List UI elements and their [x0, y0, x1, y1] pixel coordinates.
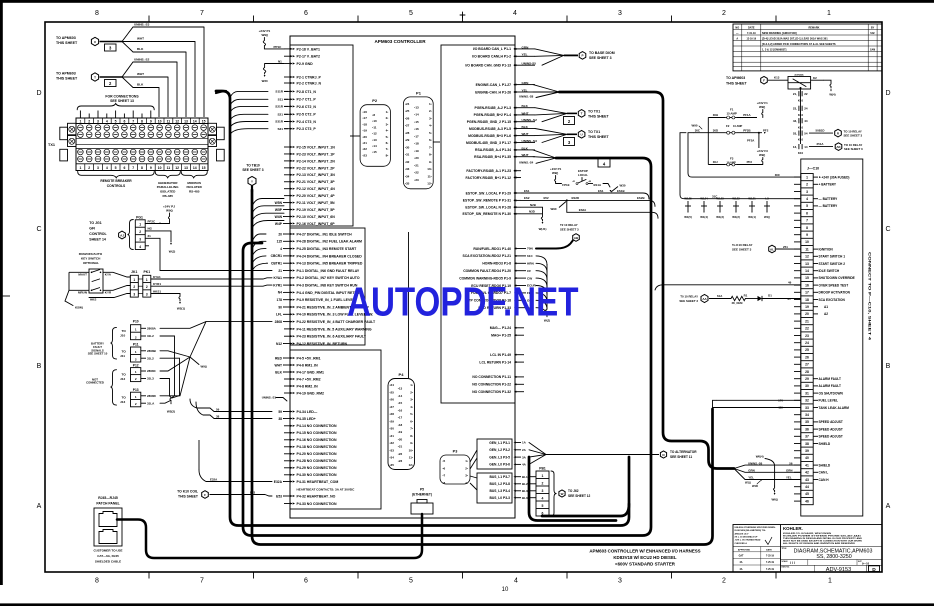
svg-text:18: 18 — [805, 298, 809, 302]
svg-text:KYA: KYA — [105, 272, 112, 276]
svg-text:ESTOP_SW_REMOTE N P1-30: ESTOP_SW_REMOTE N P1-30 — [462, 212, 511, 216]
svg-text:NO CONNECTION P1-11: NO CONNECTION P1-11 — [472, 375, 511, 379]
svg-text:AUX(D)A: AUX(D)A — [794, 74, 804, 77]
svg-text:D1: D1 — [768, 294, 772, 298]
svg-text:3: 3 — [542, 489, 544, 493]
svg-text:To K10 RELAY: To K10 RELAY — [732, 243, 753, 247]
svg-text:W6(): W6() — [771, 498, 777, 502]
svg-text:SHEET 14: SHEET 14 — [89, 238, 106, 242]
svg-text:W: W — [561, 492, 564, 496]
svg-text:P2-13 VOLT_INPUT_3N: P2-13 VOLT_INPUT_3N — [297, 173, 336, 177]
svg-text:SEE SHEET 3: SEE SHEET 3 — [589, 56, 612, 60]
svg-text:RED: RED — [275, 356, 283, 360]
svg-text:PF2B: PF2B — [743, 128, 750, 132]
GEN fan to alternator — [529, 443, 546, 455]
svg-text:P2-22 VOLT_INPUT_2P: P2-22 VOLT_INPUT_2P — [297, 166, 336, 170]
svg-text:W(J): W(J) — [169, 250, 176, 254]
svg-text:PB1: PB1 — [539, 467, 546, 471]
svg-text:9•: 9• — [410, 441, 413, 445]
svg-text:SHIELD: SHIELD — [819, 442, 831, 446]
fan PGEN to TX1 — [535, 108, 567, 114]
svg-text:1: 1 — [806, 175, 808, 179]
P10-P13 crossing wires — [160, 322, 272, 329]
svg-text:1•: 1• — [465, 459, 468, 463]
svg-text:DATE: DATE — [766, 548, 772, 551]
svg-text:C: C — [885, 226, 890, 233]
svg-text:7-25-19: 7-25-19 — [766, 569, 775, 571]
svg-text:K2: K2 — [813, 76, 817, 80]
misc vertical wires — [408, 232, 410, 378]
heavy cable RS485 fan4 — [243, 158, 651, 536]
TB10 branch wires — [252, 199, 284, 207]
svg-text:LFL: LFL — [276, 313, 282, 317]
svg-text:S11R: S11R — [275, 90, 283, 94]
svg-text:4•: 4• — [386, 129, 389, 133]
svg-text:•26: •26 — [405, 116, 410, 120]
svg-text:N1: N1 — [278, 59, 282, 63]
svg-text:ES2D: ES2D — [572, 196, 580, 200]
svg-text:.XXX ± .010 HUMAN READ: .XXX ± .010 HUMAN READ — [735, 539, 761, 542]
svg-text:P4-28 DIGITAL_IN2 FUEL LEAK AL: P4-28 DIGITAL_IN2 FUEL LEAK ALARM — [297, 240, 363, 244]
svg-text:GFI: GFI — [89, 227, 95, 231]
P3 to GEN/BUS links — [470, 450, 477, 462]
svg-text:THIS SHEET: THIS SHEET — [588, 135, 609, 139]
svg-text:9: 9 — [150, 166, 152, 170]
svg-text:ES2: ES2 — [524, 196, 530, 200]
svg-text:APM603 CONTROLLER: APM603 CONTROLLER — [374, 39, 426, 44]
PK1 wires to P4 — [151, 278, 272, 279]
svg-text:LCL IN P1-49: LCL IN P1-49 — [490, 353, 511, 357]
svg-text:ALL RIGHTS OF DESIGN AND INVEN: ALL RIGHTS OF DESIGN AND INVENTION ARE R… — [783, 542, 856, 545]
svg-text:16: 16 — [805, 283, 809, 287]
svg-text:2: 2 — [722, 578, 726, 585]
svg-text:38: 38 — [805, 442, 809, 446]
svg-text:P2-8 CT1_N: P2-8 CT1_N — [297, 90, 317, 94]
svg-text:•17: •17 — [414, 134, 419, 138]
svg-text:7-31-19: 7-31-19 — [747, 32, 756, 35]
svg-text:1: 1 — [79, 166, 81, 170]
svg-text:N: N — [662, 453, 664, 457]
svg-text:90: 90 — [278, 305, 282, 309]
svg-text:•27: •27 — [390, 405, 395, 409]
svg-text:WHT: WHT — [137, 72, 144, 76]
svg-text:44: 44 — [805, 485, 809, 489]
svg-text:P4-28 NO CONNECTION: P4-28 NO CONNECTION — [297, 459, 338, 463]
svg-text:W1(): W1() — [745, 480, 751, 484]
svg-text:UNLESS OTHERWISE SPECIFIED DIM: UNLESS OTHERWISE SPECIFIED DIMEN- — [735, 527, 776, 529]
svg-text:32: 32 — [805, 399, 809, 403]
wire T fan — [100, 76, 123, 78]
svg-text:4•: 4• — [410, 405, 413, 409]
svg-text:•30: •30 — [390, 427, 395, 431]
svg-text:P2: P2 — [372, 98, 378, 103]
svg-text:AUTOPDF.NET: AUTOPDF.NET — [347, 279, 579, 325]
svg-text:2: 2 — [542, 482, 544, 486]
svg-text:W1(4): W1(4) — [700, 215, 708, 219]
svg-text:N2B: N2B — [530, 203, 536, 207]
svg-text:APPROVED: APPROVED — [738, 548, 751, 551]
svg-text:2: 2 — [146, 285, 148, 289]
svg-text:ESTOP_SW_REMOTE P P1-31: ESTOP_SW_REMOTE P P1-31 — [463, 199, 511, 203]
svg-text:PF2: PF2 — [763, 128, 769, 132]
svg-text:FACTORY-RS485_A-1 P1-23: FACTORY-RS485_A-1 P1-23 — [466, 169, 511, 173]
svg-text:8•: 8• — [386, 153, 389, 157]
svg-text:19: 19 — [805, 305, 809, 309]
svg-text:E52: E52 — [544, 196, 550, 200]
svg-text:ALARM FAULT: ALARM FAULT — [819, 384, 841, 388]
svg-text:9: 9 — [806, 233, 808, 237]
svg-text:TO: TO — [122, 329, 127, 333]
svg-text:•14: •14 — [414, 113, 419, 117]
svg-text:10•: 10• — [409, 448, 413, 452]
svg-text:BLK: BLK — [137, 47, 144, 51]
svg-text:70N: 70N — [527, 247, 533, 251]
svg-text:MODBUS-RS485_A-3 P1-5: MODBUS-RS485_A-3 P1-5 — [469, 127, 511, 131]
svg-text:P4-35 LED+: P4-35 LED+ — [297, 417, 316, 421]
svg-text:KYA1: KYA1 — [153, 275, 161, 279]
svg-text:W2(2): W2(2) — [167, 410, 175, 414]
svg-text:W90: W90 — [692, 123, 698, 127]
svg-text:8: 8 — [95, 578, 99, 585]
svg-text:P4-20 NO CONNECTION: P4-20 NO CONNECTION — [297, 452, 338, 456]
svg-text:W30: W30 — [262, 79, 268, 83]
PG1 brace — [128, 220, 134, 250]
zone tick marks — [148, 16, 150, 22]
svg-text:(ETHERNET): (ETHERNET) — [412, 493, 432, 497]
svg-text:2808C: 2808C — [147, 369, 157, 373]
svg-text:10•: 10• — [427, 167, 431, 171]
svg-text:14: 14 — [193, 166, 197, 170]
svg-text:P2-18 V_BAT1: P2-18 V_BAT1 — [297, 47, 321, 51]
svg-text:1•: 1• — [410, 383, 413, 387]
svg-text:•12: •12 — [372, 132, 377, 136]
svg-text:NO: NO — [735, 26, 739, 29]
svg-text:N3D: N3D — [529, 210, 535, 214]
svg-text:P2-17 V_BAT2: P2-17 V_BAT2 — [297, 55, 321, 59]
svg-text:•19: •19 — [363, 129, 368, 133]
svg-text:11•: 11• — [427, 174, 431, 178]
svg-text:A1: A1 — [824, 305, 828, 309]
svg-text:CHECKED Δ: CHECKED Δ — [735, 543, 748, 545]
svg-text:ALARM FAULT: ALARM FAULT — [819, 377, 841, 381]
svg-text:N4: N4 — [278, 291, 282, 295]
svg-text:P4-19 GND_RM2: P4-19 GND_RM2 — [297, 391, 324, 395]
svg-text:•14: •14 — [398, 394, 403, 398]
svg-text:5: 5 — [806, 204, 808, 208]
svg-text:21: 21 — [805, 319, 809, 323]
svg-text:UNINS.-S3: UNINS.-S3 — [134, 23, 150, 27]
svg-text:SCALE: SCALE — [782, 560, 789, 563]
svg-text:PF1A: PF1A — [743, 113, 751, 117]
svg-text:3•: 3• — [465, 474, 468, 478]
svg-text:PGEN-RS485_B+2 P1-4: PGEN-RS485_B+2 P1-4 — [474, 113, 512, 117]
svg-text:W(4): W(4) — [829, 93, 835, 97]
svg-text:8•: 8• — [410, 434, 413, 438]
svg-text:3: 3 — [806, 190, 808, 194]
svg-text:SEE SHEET 13: SEE SHEET 13 — [110, 99, 134, 103]
svg-text:SEE SHEET 3: SEE SHEET 3 — [844, 147, 863, 151]
svg-text:NO CONNECTION P1-22: NO CONNECTION P1-22 — [472, 383, 511, 387]
svg-text:TO: TO — [122, 350, 127, 354]
svg-text:BUS_L0 P3-3: BUS_L0 P3-3 — [489, 496, 510, 500]
svg-text:J13: J13 — [120, 400, 125, 404]
svg-text:10: 10 — [805, 240, 809, 244]
svg-text:BUS_L3 P3-4: BUS_L3 P3-4 — [489, 489, 510, 493]
svg-text:TO BASE DIOM: TO BASE DIOM — [589, 51, 615, 55]
svg-text:KOHLER POWER SYSTEMS PHONE 92: KOHLER POWER SYSTEMS PHONE 920-457-4441 — [783, 534, 862, 537]
svg-text:45: 45 — [805, 492, 809, 496]
svg-text:•29: •29 — [390, 419, 395, 423]
svg-text:TO K10 COIL: TO K10 COIL — [177, 490, 198, 494]
svg-text:BL1: BL1 — [522, 475, 528, 479]
svg-text:WHT: WHT — [274, 363, 282, 367]
svg-text:W1(3): W1(3) — [716, 215, 724, 219]
svg-text:43,: 43, — [793, 119, 797, 123]
svg-text:A2: A2 — [824, 312, 828, 316]
svg-text:XX ± .03 DECIMALS UP: XX ± .03 DECIMALS UP — [735, 535, 758, 538]
svg-text:LCL RETURN P1-14: LCL RETURN P1-14 — [479, 360, 511, 364]
svg-text:TO TB10: TO TB10 — [246, 164, 260, 168]
svg-text:P2-11 VOLT_INPUT_5N: P2-11 VOLT_INPUT_5N — [297, 201, 336, 205]
svg-text:14: 14 — [193, 120, 197, 124]
svg-text:P2-23 VOLT_INPUT_1P: P2-23 VOLT_INPUT_1P — [297, 152, 336, 156]
svg-text:6•: 6• — [386, 141, 389, 145]
svg-text:31LA: 31LA — [147, 401, 155, 405]
svg-text:•35: •35 — [405, 182, 410, 186]
svg-text:APM603 CONTROLLER W/ ENHANCED: APM603 CONTROLLER W/ ENHANCED I/O HARNES… — [589, 549, 700, 554]
svg-text:SHIELDED CABLE: SHIELDED CABLE — [95, 560, 121, 564]
svg-text:W4N: W4N — [275, 215, 283, 219]
svg-text:2: 2 — [135, 358, 137, 362]
svg-text:P4-33 NO CONNECTION: P4-33 NO CONNECTION — [297, 502, 338, 506]
svg-text:SEE SHEET 12: SEE SHEET 12 — [568, 494, 591, 498]
svg-text:•11: •11 — [372, 125, 377, 129]
svg-text:6: 6 — [123, 166, 125, 170]
svg-text:E32A: E32A — [210, 477, 218, 481]
wire 251 — [776, 248, 801, 250]
svg-text:— BATTERY: — BATTERY — [819, 197, 839, 201]
svg-text:23: 23 — [805, 334, 809, 338]
svg-text:26: 26 — [805, 355, 809, 359]
svg-text:W2(1): W2(1) — [177, 307, 185, 311]
svg-text:GRN: GRN — [748, 469, 754, 473]
svg-text:WHT: WHT — [137, 37, 144, 41]
svg-text:T: T — [581, 112, 583, 116]
svg-text:D: D — [885, 90, 890, 97]
svg-text:1: 1 — [133, 278, 135, 282]
svg-text:59: 59 — [278, 410, 282, 414]
svg-text:BLK: BLK — [275, 370, 282, 374]
svg-text:•19: •19 — [398, 430, 403, 434]
svg-text:UNINS.-S6: UNINS.-S6 — [748, 461, 763, 465]
svg-text:ESTOP_SW_LOCAL N P1-28: ESTOP_SW_LOCAL N P1-28 — [465, 206, 511, 210]
wire E32A — [199, 470, 272, 482]
svg-text:K10: K10 — [798, 138, 804, 142]
svg-text:42: 42 — [805, 471, 809, 475]
svg-text:OPTIONAL: OPTIONAL — [83, 261, 99, 265]
svg-text:•5: •5 — [443, 459, 446, 463]
svg-text:•17: •17 — [363, 116, 368, 120]
svg-text:•24: •24 — [405, 102, 410, 106]
svg-text:9—10: 9—10 — [862, 561, 870, 565]
svg-text:1: 1 — [146, 278, 148, 282]
svg-text:12: 12 — [805, 255, 809, 259]
svg-text:ES1B: ES1B — [617, 189, 625, 193]
sub-box P1 right rows — [441, 45, 515, 403]
svg-text:•24: •24 — [390, 383, 395, 387]
svg-text:W1(5): W1(5) — [684, 215, 692, 219]
svg-text:4: 4 — [806, 197, 808, 201]
svg-text:OS SHUTDOWN: OS SHUTDOWN — [819, 391, 844, 395]
svg-text:•34: •34 — [390, 456, 395, 460]
connector J-C10 outer box — [801, 159, 863, 516]
svg-text:•26: •26 — [390, 398, 395, 402]
svg-text:37: 37 — [805, 435, 809, 439]
svg-text:•16: •16 — [398, 408, 403, 412]
svg-text:7•: 7• — [410, 427, 413, 431]
brace TO J10 J11 — [111, 327, 117, 359]
svg-text:W9(): W9() — [201, 365, 207, 369]
svg-text:+ BATTERY: + BATTERY — [819, 183, 837, 187]
wire 31C to JC10 — [680, 133, 801, 199]
net box 4 — [598, 159, 610, 168]
svg-text:2808D: 2808D — [147, 394, 157, 398]
net box 2 — [105, 80, 117, 87]
svg-text:5: 5 — [409, 10, 413, 17]
relay coil K13 — [768, 79, 788, 81]
svg-text:21: 21 — [278, 269, 282, 273]
svg-text:•21: •21 — [398, 445, 403, 449]
svg-text:DWG NO.: DWG NO. — [782, 567, 791, 569]
svg-text:GEN_L2 P3-2: GEN_L2 P3-2 — [489, 448, 510, 452]
svg-text:ESTOP_SW_LOCAL P P1-29: ESTOP_SW_LOCAL P P1-29 — [466, 191, 512, 195]
svg-text:KD83V18 W/ ECU2 HD DIESEL: KD83V18 W/ ECU2 HD DIESEL — [613, 555, 677, 560]
svg-text:P2-2 CTNRJ_N: P2-2 CTNRJ_N — [297, 81, 322, 85]
heavy hook right of PB1 — [542, 504, 629, 516]
svg-text:•14: •14 — [372, 144, 377, 148]
wire 49 to overspeed — [655, 285, 801, 290]
svg-text:RS-485: RS-485 — [189, 190, 200, 194]
svg-text:•29: •29 — [405, 138, 410, 142]
svg-text:3•: 3• — [410, 398, 413, 402]
svg-text:FUEL LEVEL: FUEL LEVEL — [819, 399, 838, 403]
svg-text:TO APM603: TO APM603 — [726, 76, 745, 80]
svg-text:13,: 13, — [793, 145, 797, 149]
svg-text:BL2: BL2 — [522, 482, 528, 486]
svg-text:3: 3 — [133, 292, 135, 296]
svg-text:CAT—6A, RJ45: CAT—6A, RJ45 — [97, 554, 119, 558]
wire U fan — [100, 41, 123, 43]
svg-text:TO JG1: TO JG1 — [89, 221, 101, 225]
svg-text:30D: 30D — [713, 128, 718, 132]
svg-text:TO APM603: TO APM603 — [56, 72, 76, 76]
svg-text:1: 1 — [828, 578, 832, 585]
svg-text:L3: L3 — [765, 197, 769, 201]
svg-text:D: D — [36, 90, 41, 97]
heavy cable to TB10 — [252, 190, 713, 545]
svg-text:5•: 5• — [410, 412, 413, 416]
svg-text:S11: S11 — [278, 98, 284, 102]
svg-text:11: 11 — [805, 247, 809, 251]
svg-text:P2-15 VOLT_INPUT_1N: P2-15 VOLT_INPUT_1N — [297, 145, 336, 149]
fan engine CAN heavy — [533, 85, 559, 92]
svg-text:ENGINE-CAN_H P1-26: ENGINE-CAN_H P1-26 — [475, 90, 511, 94]
svg-text:AL: AL — [770, 247, 774, 251]
svg-text:J—C10: J—C10 — [807, 167, 819, 171]
svg-text:61: 61 — [788, 297, 792, 301]
svg-text:KYR1: KYR1 — [153, 282, 161, 286]
wire ES2 — [521, 200, 655, 206]
svg-text:YEL: YEL — [748, 476, 754, 480]
svg-text:FOR CONNECTIONS: FOR CONNECTIONS — [105, 95, 139, 99]
svg-text:F: F — [763, 79, 765, 83]
svg-text:P2-19 VOLT_INPUT_5P: P2-19 VOLT_INPUT_5P — [297, 208, 336, 212]
svg-text:13: 13 — [805, 262, 809, 266]
svg-text:•35: •35 — [390, 463, 395, 467]
svg-text:7-25-19: 7-25-19 — [766, 562, 775, 564]
svg-text:7-25-19: 7-25-19 — [766, 556, 775, 558]
svg-text:W1J4: W1J4 — [700, 197, 708, 201]
svg-text:P4-23 RESISTIVE_IN_6 AUXILIARY: P4-23 RESISTIVE_IN_6 AUXILIARY FAULT — [297, 335, 367, 339]
svg-text:•27: •27 — [405, 124, 410, 128]
connector T right — [578, 110, 585, 118]
svg-text:ES1: ES1 — [598, 189, 604, 193]
svg-text:9: 9 — [150, 120, 152, 124]
svg-text:B: B — [886, 363, 891, 370]
svg-text:12: 12 — [175, 166, 179, 170]
svg-text:24: 24 — [804, 107, 808, 111]
svg-text:•13: •13 — [414, 105, 419, 109]
wire PF2A — [758, 133, 760, 148]
svg-text:HEARTBEAT CONTACTS: 3A AT 30VD: HEARTBEAT CONTACTS: 3A AT 30VDC — [297, 488, 356, 492]
svg-text:THIS SHEET: THIS SHEET — [588, 114, 609, 118]
svg-text:56: 56 — [789, 461, 793, 465]
svg-text:•28: •28 — [405, 131, 410, 135]
wires 59 38 to LED rows — [190, 399, 272, 412]
svg-text:4: 4 — [542, 497, 544, 501]
svg-text:GEN_L0 P3-6: GEN_L0 P3-6 — [489, 463, 510, 467]
connector N to alternator — [660, 451, 666, 458]
svg-text:SEE SHEET 3: SEE SHEET 3 — [242, 168, 263, 172]
svg-text:P4-34 LED—: P4-34 LED— — [297, 410, 318, 414]
svg-text:P4-18 NO CONNECTION: P4-18 NO CONNECTION — [297, 445, 338, 449]
svg-text:P2-6 CT2_N: P2-6 CT2_N — [297, 105, 317, 109]
svg-text:•33: •33 — [390, 448, 395, 452]
svg-text:1: 1 — [135, 328, 137, 332]
svg-text:RSA-RS485_A-4 P1-34: RSA-RS485_A-4 P1-34 — [475, 148, 511, 152]
key switch — [89, 269, 103, 293]
RJ45 jack upper — [99, 512, 117, 527]
svg-text:10: 10 — [502, 587, 509, 593]
svg-text:30H: 30H — [713, 113, 718, 117]
net box 3 right — [564, 138, 575, 146]
svg-text:START SWITCH 2: START SWITCH 2 — [819, 262, 846, 266]
svg-text:P4: P4 — [399, 372, 405, 377]
svg-text:6: 6 — [806, 211, 808, 215]
svg-text:7: 7 — [806, 219, 808, 223]
svg-text:MAG— P1-24: MAG— P1-24 — [490, 326, 511, 330]
svg-text:34: 34 — [805, 413, 809, 417]
svg-text:10 AMP: 10 AMP — [733, 124, 743, 128]
svg-text:3: 3 — [146, 292, 148, 296]
svg-text:•18: •18 — [398, 423, 403, 427]
svg-text:D: D — [872, 567, 876, 573]
svg-text:IN INCHES [MILLIMETERS] TOL: IN INCHES [MILLIMETERS] TOL — [735, 530, 767, 532]
svg-text:12-16-19: 12-16-19 — [747, 37, 757, 40]
svg-text:B: B — [37, 363, 42, 370]
svg-text:— BATTERY: — BATTERY — [819, 204, 839, 208]
svg-text:15: 15 — [202, 166, 206, 170]
